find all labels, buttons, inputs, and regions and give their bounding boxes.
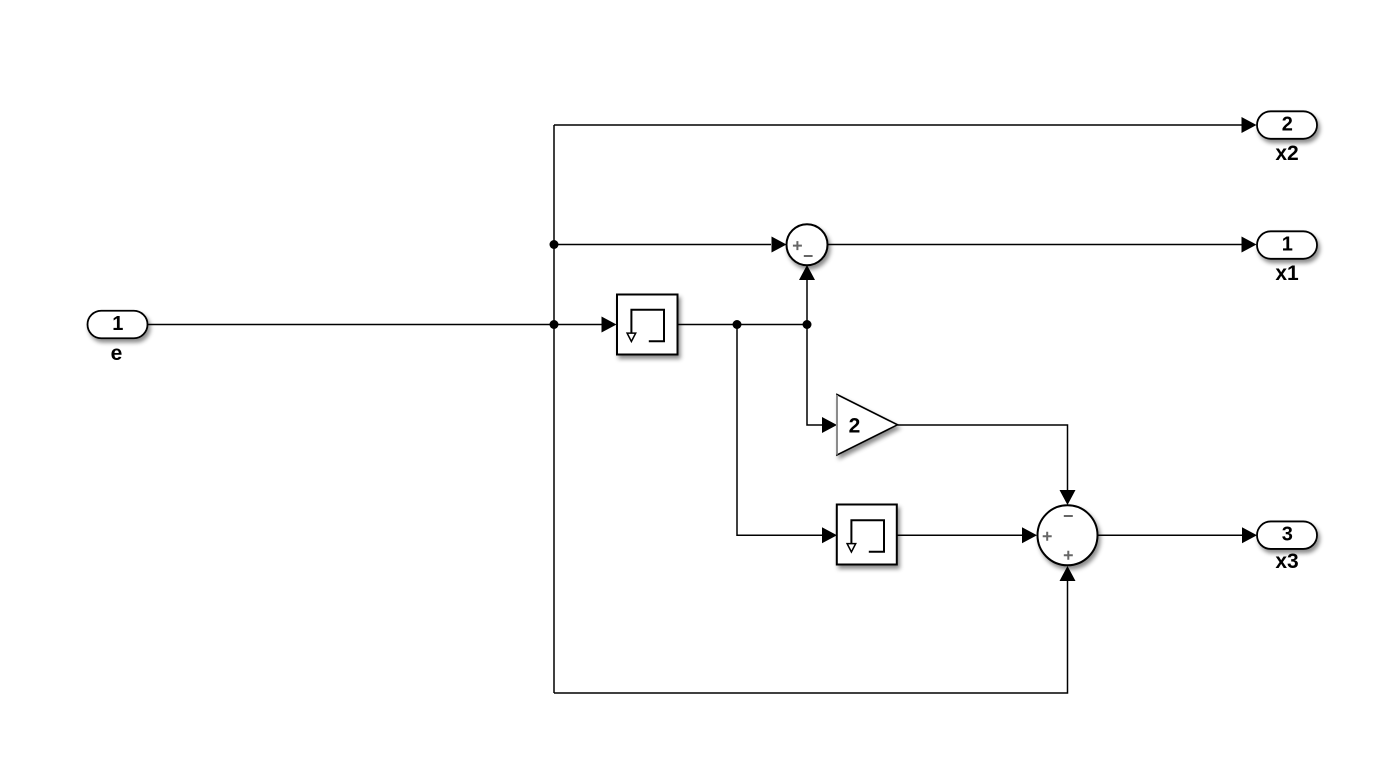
svg-text:2: 2 <box>1282 113 1293 135</box>
gain block G1 (gain = 2) <box>837 395 898 456</box>
wire: delay D2 output to sum S2 left <box>897 534 1022 536</box>
wire: top branch to outport x2 <box>554 124 1242 126</box>
outport 3 (x3) <box>1257 521 1317 549</box>
wire: sum S1 output to outport x1 <box>828 244 1243 246</box>
inport 1 (e) <box>88 311 148 339</box>
arrowhead into sum S2 bottom <box>1060 566 1076 581</box>
junction dot C (807,324.5) <box>803 320 812 329</box>
wire: main vertical bus at x=554 <box>553 125 555 693</box>
junction dot A (554,244.5) <box>550 240 559 249</box>
arrowhead into sum S1 left <box>772 237 787 253</box>
svg-text:1: 1 <box>1282 233 1293 255</box>
svg-text:x1: x1 <box>1275 262 1299 285</box>
svg-text:2: 2 <box>849 415 861 438</box>
delay block D1 <box>617 295 678 355</box>
arrowhead into sum S2 left <box>1022 527 1037 543</box>
wire: inport e to junction A <box>148 324 603 326</box>
outport 2 (x2) <box>1257 111 1317 139</box>
wire: feedback along bottom to sum S2 bottom <box>554 581 1068 693</box>
arrowhead into delay D1 <box>602 317 617 333</box>
svg-text:x2: x2 <box>1275 142 1298 165</box>
wire: delay D1 output to node C <box>678 324 808 326</box>
wire: node C up into sum S1 bottom <box>806 279 808 325</box>
junction dot (554,324.5) <box>550 320 559 329</box>
svg-text:1: 1 <box>112 313 123 335</box>
outport 1 (x1) <box>1257 231 1317 258</box>
arrowhead into delay D2 <box>822 527 837 543</box>
arrowhead into gain G1 <box>822 417 837 433</box>
wire: sum S2 output to outport x3 <box>1098 534 1242 536</box>
arrowhead into outport 1 <box>1242 237 1257 253</box>
svg-text:3: 3 <box>1282 524 1293 546</box>
sum block S2 <box>1038 505 1098 565</box>
junction dot B (737,324.5) <box>733 320 742 329</box>
wire: gain G1 output to sum S2 top <box>898 425 1068 490</box>
arrowhead into outport 3 <box>1242 527 1257 543</box>
arrowhead into outport 2 <box>1242 117 1257 133</box>
arrowhead into sum S1 bottom <box>799 265 815 280</box>
wire: node C down and right to gain G1 <box>807 325 822 426</box>
wire: branch at y=244.5 to sum S1 <box>554 244 771 246</box>
svg-text:x3: x3 <box>1275 550 1298 573</box>
arrowhead into sum S2 top <box>1060 490 1076 505</box>
svg-text:e: e <box>111 342 123 365</box>
sum block S1 <box>787 224 828 265</box>
delay block D2 <box>837 505 897 565</box>
wire: node B down and right to delay D2 <box>737 325 822 536</box>
